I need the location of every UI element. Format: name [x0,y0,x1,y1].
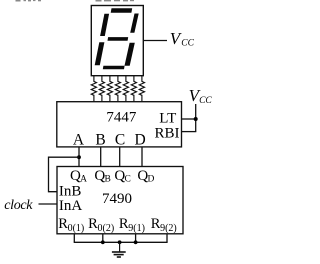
wire feedback QA to InB [49,157,80,192]
IC U2 7490 box [57,167,183,234]
wire LT stub [182,118,196,120]
svg-text:clock: clock [4,198,33,213]
wire C to QC [119,147,121,167]
svg-text:CC: CC [181,39,194,49]
segment e [95,42,105,65]
svg-text:0(1): 0(1) [68,223,85,234]
svg-text:7490: 7490 [102,191,132,207]
svg-text:B: B [95,131,105,148]
wire clock to InA [39,203,58,205]
segment d [103,66,125,70]
svg-text:D: D [134,131,145,148]
wire R0(2) stub [102,234,104,243]
junction dot ground stem [118,240,122,244]
resistor R6 [131,76,136,102]
segment f [100,14,109,36]
resistors R1-R7 [91,76,144,102]
digit 8 [95,8,139,69]
svg-text:C: C [115,131,125,148]
junction dot R0(2) [101,240,105,244]
junction dot R9(1) [134,240,138,244]
resistor R1 [91,76,96,102]
wire B to QB [100,147,102,167]
resistor R4 [115,76,120,102]
resistor R7 [139,76,144,102]
wire D to QD [141,147,143,167]
svg-text:9(1): 9(1) [128,223,145,234]
wire R9(1) stub [135,234,137,243]
svg-text:CC: CC [199,96,212,106]
resistor R3 [107,76,112,102]
svg-text:9(2): 9(2) [160,223,177,234]
cropped text fragment at top edge [16,0,135,2]
resistor R5 [123,76,128,102]
svg-text:D: D [148,175,155,185]
wire RBI stub [182,131,197,133]
resistor R2 [99,76,104,102]
seven-segment display DS1 box [91,6,143,76]
junction dot node A [77,155,81,159]
svg-text:RBI: RBI [155,125,180,141]
segment c [125,43,135,66]
svg-text:0(2): 0(2) [98,223,115,234]
svg-text:A: A [73,131,85,148]
segment g [108,37,129,41]
svg-text:C: C [125,175,131,185]
svg-text:7447: 7447 [106,110,137,126]
wire ground bus [74,241,168,243]
wire display Vcc [143,40,167,42]
svg-text:LT: LT [159,110,176,126]
segment a [111,8,133,13]
svg-text:InA: InA [59,198,82,214]
wire Vcc vertical [195,104,197,132]
wire R9(2) stub [166,234,168,243]
IC U1 7447 box [57,102,182,147]
junction dot LT/RBI [194,117,198,121]
svg-text:B: B [105,175,111,185]
wire R0(1) stub [73,234,75,243]
ground [112,242,126,257]
segment b [130,14,139,33]
wire A to QA [78,147,80,167]
